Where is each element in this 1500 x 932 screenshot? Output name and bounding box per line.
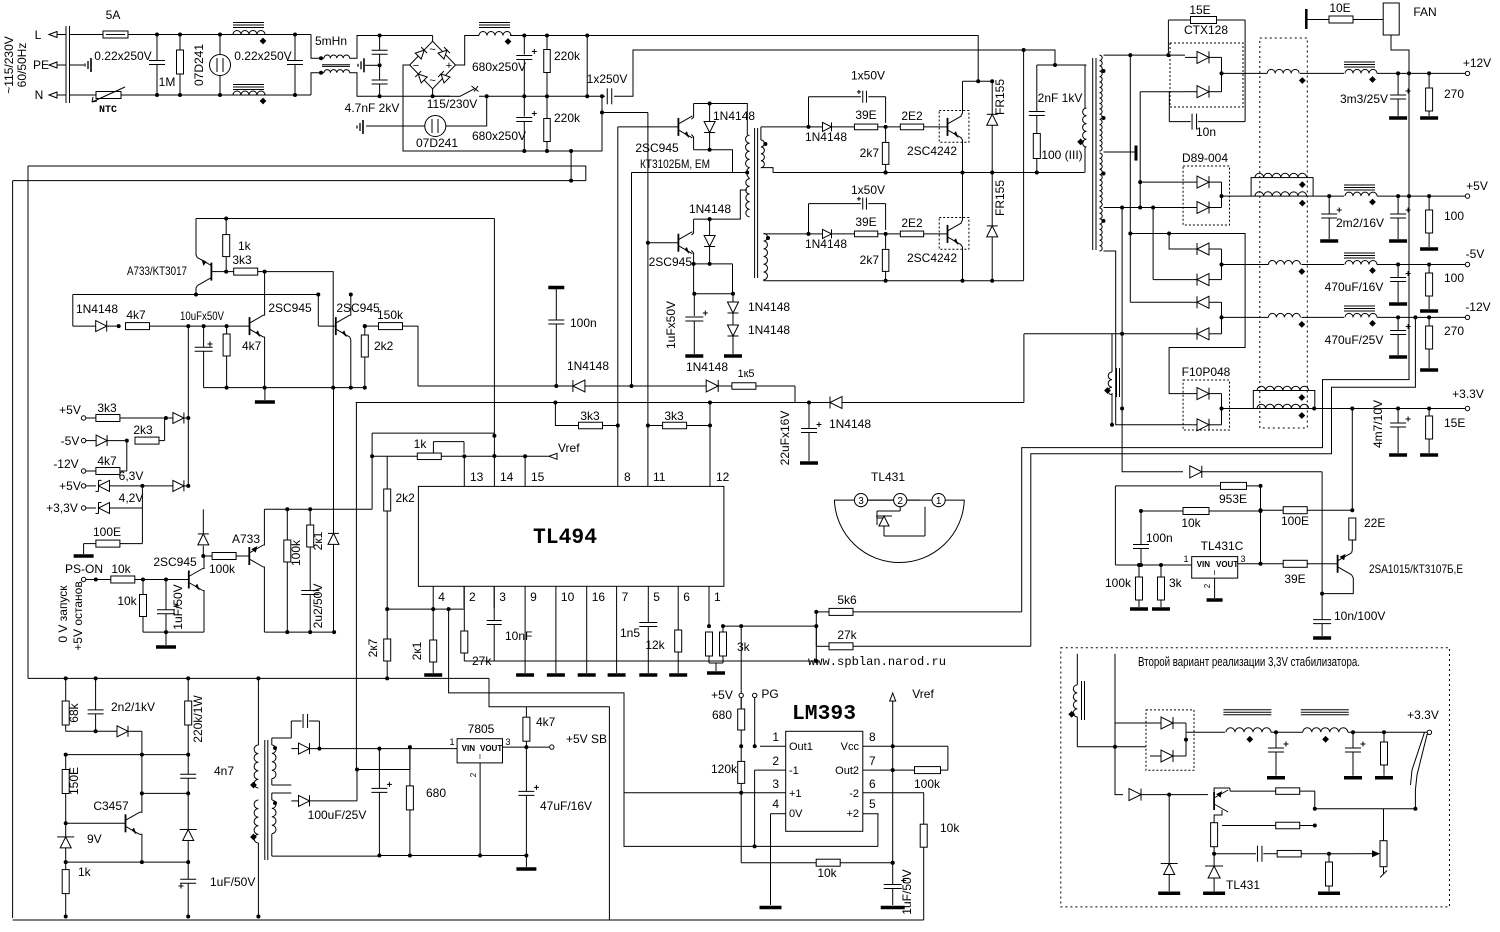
svg-text:15E: 15E (1444, 416, 1465, 430)
svg-text:1x50V: 1x50V (851, 69, 885, 83)
resistor 3k3q5 (224, 268, 264, 275)
resistor 100k431 (1130, 563, 1148, 609)
resistor 27k (461, 608, 468, 661)
wire lower rail up right (1023, 50, 1025, 281)
svg-text:39E: 39E (855, 215, 876, 229)
TL494 pin 9 bottom (524, 586, 526, 608)
resistor 39E lower (854, 231, 900, 237)
svg-text:4k7: 4k7 (97, 454, 117, 468)
varistor 07D241 (210, 33, 231, 98)
svg-text:680: 680 (426, 786, 446, 800)
wire -5V rail b (1302, 264, 1345, 266)
rectifier D89 D1 (1197, 176, 1222, 188)
resistor 150E (62, 755, 69, 824)
wire q5 top right (226, 218, 494, 220)
diode D7 (728, 302, 739, 325)
svg-text:10: 10 (561, 590, 575, 604)
transistor Q5 (197, 258, 226, 286)
svg-text:2: 2 (897, 496, 903, 507)
resistor 1M label (159, 75, 176, 89)
note psontext2 (71, 581, 85, 650)
resistor 4k7b (223, 326, 230, 390)
wire aux bottom (1110, 393, 1114, 427)
capacitor 470uF25 label (1325, 333, 1384, 347)
transformer T3 primary (250, 678, 260, 918)
vertical 1260 (1259, 484, 1263, 564)
wire sense long (356, 402, 809, 404)
svg-text:F10P048: F10P048 (1182, 365, 1231, 379)
wire Q3 collector (691, 104, 693, 120)
winding aux (1104, 368, 1119, 397)
resistor 270m12 label (1444, 324, 1464, 338)
svg-text:1: 1 (449, 737, 454, 747)
zener 6.3V (96, 480, 145, 491)
resistor 2k7 lower (882, 234, 889, 283)
transformer T1 core (755, 128, 758, 278)
transformer T1 primary top (746, 135, 750, 167)
TL494 pin 3 bottom (493, 586, 495, 608)
diode 1N4148 lower (809, 229, 855, 238)
wire D89 upper input (1140, 181, 1197, 183)
diode FR155 upper label (993, 79, 1007, 115)
gnd pin1 (707, 663, 725, 673)
wire sec bottom (1104, 251, 1193, 425)
capacitor 100uF label (308, 808, 367, 822)
transistor Q8 (189, 569, 203, 591)
capacitor 1uFx50V (685, 294, 708, 356)
wire bridge plus out (456, 36, 480, 66)
terminal L (49, 32, 66, 38)
svg-text:3k3: 3k3 (97, 401, 117, 415)
transistor 2SA1015 (1331, 553, 1352, 575)
transistor 2SC4242 upper label (907, 144, 957, 158)
resistor 100Es label (93, 525, 121, 539)
transistor Q8 label (153, 555, 197, 569)
resistor 15E33 label (1444, 416, 1465, 430)
svg-text:4.7nF 2kV: 4.7nF 2kV (345, 101, 400, 115)
resistor 2k1b (307, 509, 314, 590)
wire Q2 collector (961, 173, 963, 223)
resistor 100-5 label (1444, 209, 1464, 223)
svg-text:5: 5 (653, 590, 660, 604)
svg-text:3k: 3k (1169, 576, 1183, 590)
terminal PE label (33, 58, 49, 72)
capacitor 2m2 label (1336, 216, 1384, 230)
diode -12V a (1192, 296, 1221, 308)
alt33 junction (1113, 745, 1117, 749)
wire pin2 path (754, 770, 756, 846)
diode FR155 lower label (993, 180, 1007, 216)
capacitor 1uFps label (171, 584, 185, 629)
resistor 1k5 label (737, 368, 754, 380)
junction 3.3 22E (1350, 407, 1354, 411)
svg-text:100uF/25V: 100uF/25V (308, 808, 367, 822)
wire PE to earth (70, 64, 85, 66)
diode fb 1N4148 label (829, 417, 871, 431)
diode sb1 (66, 726, 142, 737)
junction 3k3 out (263, 270, 267, 274)
svg-text:1: 1 (936, 496, 942, 507)
svg-text:2nF 1kV: 2nF 1kV (1038, 91, 1083, 105)
TL494 pin 7 bottom (616, 586, 618, 608)
svg-text:~: ~ (429, 44, 435, 56)
choke L2 core (479, 23, 510, 28)
capacitor 3m3 (1389, 73, 1411, 118)
input -5V label (61, 434, 80, 448)
capacitor 10uF label (180, 309, 224, 323)
bridge ac mark top (429, 44, 435, 56)
resistor 1k494 label (414, 437, 428, 451)
wire +3.3 rail b (1315, 408, 1466, 410)
wire node diodes (694, 293, 733, 295)
gnd pin x616.6 (608, 608, 626, 675)
svg-text:3m3/25V: 3m3/25V (1340, 92, 1388, 106)
svg-text:10n/100V: 10n/100V (1334, 609, 1385, 623)
wire Q4 collector rail (694, 190, 747, 219)
resistor 10E label (1329, 1, 1350, 15)
alt33 zener1 (1158, 795, 1180, 894)
svg-text:2SC4242: 2SC4242 (907, 144, 957, 158)
junction fb 3.3 (1120, 407, 1124, 411)
alt33 choke1 (1223, 710, 1271, 743)
bridge diode D3 (415, 71, 427, 83)
svg-text:3: 3 (772, 777, 779, 791)
svg-text:2: 2 (469, 772, 478, 777)
diode tl431c feed (1190, 466, 1322, 478)
svg-text:39E: 39E (1284, 572, 1305, 586)
resistor 3k3p11 label (664, 409, 684, 423)
svg-text:2k7: 2k7 (860, 253, 880, 267)
svg-text:1: 1 (1183, 554, 1188, 564)
resistor 1k494 (372, 453, 441, 460)
capacitor 10n100V (1313, 594, 1331, 638)
tap bar FAN (1305, 9, 1308, 29)
svg-text:-5V: -5V (61, 434, 80, 448)
svg-text:953E: 953E (1219, 492, 1247, 506)
wire pin1 right (723, 625, 816, 627)
junction Q5 collector (194, 293, 198, 297)
svg-text:680x250V: 680x250V (472, 60, 526, 74)
wire choke2 bottom out (350, 73, 450, 97)
diode D5 (704, 102, 715, 152)
resistor 1kq5 label (238, 239, 252, 253)
varistor 07D241 label (192, 44, 206, 86)
svg-text:PE: PE (33, 58, 49, 72)
alt33 rail1 (1271, 731, 1303, 733)
resistor 680sb label (426, 786, 446, 800)
alt33 TL431 label (1226, 878, 1260, 892)
input +5V a (81, 416, 95, 420)
resistor 10kd (741, 793, 895, 866)
resistor 2k7 upper (882, 127, 889, 175)
diode q8 (198, 509, 209, 556)
resistor 1k5 (732, 383, 795, 390)
resistor 22E label (1364, 516, 1385, 530)
svg-text:+2: +2 (846, 808, 859, 820)
capacitor snub sb (291, 714, 319, 749)
wire N into choke2 (311, 73, 324, 95)
resistor 10kc label (940, 821, 960, 835)
terminal +3.3V label (1452, 387, 1484, 401)
wire Q5 emitter (196, 219, 197, 258)
alt33 diode ctrl (1129, 789, 1171, 801)
choke +12V section (1267, 69, 1305, 83)
wire pin8 up (617, 127, 619, 487)
wire Q3 emitter rail (694, 150, 733, 173)
wire sb fb2 (142, 754, 188, 756)
svg-text:2: 2 (469, 590, 476, 604)
svg-text:0V: 0V (789, 808, 803, 820)
svg-text:-5V: -5V (1466, 247, 1485, 261)
svg-text:100 (III): 100 (III) (1041, 148, 1082, 162)
wire d3 input (1130, 301, 1192, 303)
transistor Q10 label (93, 799, 129, 813)
wire tap y208 (1104, 207, 1198, 209)
diode -5V b (1192, 274, 1221, 286)
wire 2SA1015 collector (1322, 575, 1353, 594)
wire sb bottom link (66, 861, 189, 863)
resistor 2E2 lower label (901, 216, 923, 230)
earth varistor (357, 120, 363, 134)
rail Q4 emitter (692, 262, 733, 266)
capacitor 4m7 label (1371, 400, 1385, 448)
wire aux top (1111, 334, 1113, 372)
svg-text:4m7/10V: 4m7/10V (1371, 400, 1385, 448)
resistor 100Es (84, 508, 143, 547)
diode dt (418, 380, 706, 392)
wire Q7 emitter (350, 337, 351, 388)
svg-text:470uF/16V: 470uF/16V (1325, 280, 1384, 294)
bridge diode D1 (415, 47, 427, 59)
svg-text:Второй вариант реализации 3,3V: Второй вариант реализации 3,3V стабилиза… (1138, 655, 1360, 669)
svg-text:7: 7 (622, 590, 629, 604)
bridge plus mark (446, 60, 452, 72)
resistor 100E431 (1261, 507, 1355, 514)
TL494 pin 3 label (499, 590, 506, 604)
rectifier CTX128 D2 (1185, 86, 1222, 98)
svg-text:5A: 5A (106, 8, 121, 22)
capacitor CX2 (287, 33, 303, 98)
output choke dashed box (1260, 38, 1308, 428)
svg-text:3: 3 (505, 737, 510, 747)
wire 10n left (1168, 92, 1170, 122)
IC 7805 gnd stem (479, 763, 481, 856)
svg-text:PG: PG (761, 687, 778, 701)
svg-text:1k: 1k (78, 865, 92, 879)
resistor 10k431 label (1181, 516, 1201, 530)
LM393 pin4 (771, 797, 804, 820)
svg-text:+5V останов: +5V останов (71, 581, 85, 650)
diode 1N4148 h label (76, 302, 118, 316)
diode s3 (142, 480, 188, 491)
wire mid to 1x250V (587, 95, 605, 97)
junction lower rail bus (1022, 48, 1026, 52)
resistor 27kb label (837, 628, 857, 642)
rail a733 bottom (264, 630, 336, 634)
IC 7805 pins (449, 737, 510, 777)
diode D8 label (748, 323, 790, 337)
wire +3.3 rail a (1222, 408, 1254, 410)
IC TL494 box (418, 486, 724, 586)
svg-text:1к5: 1к5 (737, 368, 754, 380)
resistor 270-12 label (1444, 87, 1464, 101)
svg-text:2E2: 2E2 (901, 109, 923, 123)
transistor 2SC4242 upper box (939, 111, 969, 143)
resistor 100(III) (1033, 134, 1040, 173)
alt33 choke2 (1301, 710, 1349, 743)
svg-text:2SC945: 2SC945 (336, 301, 380, 315)
resistor R220k-1 (544, 34, 551, 99)
mains connector bars (66, 26, 70, 103)
TL494 pin 6 bottom (677, 586, 679, 608)
svg-text:1uF/50V: 1uF/50V (210, 875, 255, 889)
wire Q1 collector (961, 81, 963, 116)
capacitor CX1 (149, 33, 165, 98)
bridge diode D4 (438, 71, 450, 83)
wire vcc right (893, 745, 948, 747)
alt33 winding (1068, 654, 1084, 747)
alt33 ctrl in (1115, 747, 1123, 795)
capacitor 22uF label (778, 411, 792, 466)
TL494 pin 11 label (653, 470, 666, 484)
svg-text:2: 2 (772, 754, 779, 768)
wire Q6 collector (264, 272, 265, 316)
rectifier F10P048 D1 (1192, 388, 1221, 400)
wire Q7 collector (350, 295, 351, 316)
bus gnd vertical (1022, 73, 1409, 612)
diode 1N4148 lower label (805, 237, 847, 251)
svg-text:FR155: FR155 (993, 180, 1007, 216)
svg-text:3k3: 3k3 (580, 409, 600, 423)
diode 1N4148 upper (809, 122, 855, 131)
TL494 pin 2 label (469, 590, 476, 604)
svg-text:2n2/1kV: 2n2/1kV (111, 700, 155, 714)
capacitor 1x250V (607, 88, 612, 104)
svg-text:1: 1 (772, 730, 779, 744)
gnd 100E (74, 544, 94, 556)
svg-text:2: 2 (1203, 583, 1212, 588)
varistor 07D241 second label (416, 136, 458, 150)
regulator TL431C pins (1183, 554, 1245, 588)
choke CM1 bottom winding (233, 91, 266, 104)
vertical x587 (585, 36, 589, 99)
bar -12V (1220, 302, 1224, 334)
TL494 pin 7 label (622, 590, 629, 604)
junction bridge top (431, 94, 435, 98)
terminal +3.3V (1465, 406, 1469, 410)
svg-text:1N4148: 1N4148 (76, 302, 118, 316)
choke -5V section (1268, 261, 1305, 275)
TL494 pin 5 label (653, 590, 660, 604)
resistor 2E2 lower (900, 231, 941, 237)
svg-text:I: I (1214, 570, 1216, 577)
resistor 4k7s (96, 441, 127, 475)
wire 3.3 to 22E (1351, 409, 1353, 511)
svg-text:14: 14 (500, 470, 514, 484)
svg-text:3k3: 3k3 (232, 253, 252, 267)
capacitor 47uF (518, 747, 539, 855)
diode sb out2 (291, 795, 357, 806)
resistor 12k (669, 608, 687, 675)
IC TL431 internals (868, 500, 925, 536)
junction vref cap (891, 746, 895, 884)
resistor 100kc label (289, 539, 303, 566)
svg-text:FAN: FAN (1413, 5, 1436, 19)
wire Q4 emitter (691, 250, 693, 264)
resistor 2k7 upper label (860, 146, 880, 160)
TL494 pin 1 bottom (708, 586, 710, 608)
svg-text:C3457: C3457 (93, 799, 129, 813)
transistor Q9 (249, 545, 263, 567)
resistor 39E upper label (855, 108, 876, 122)
resistor R220k-2 label (554, 111, 581, 125)
transformer T1 primary bottom (746, 179, 750, 217)
wire 7805 out (503, 746, 550, 748)
svg-text:16: 16 (592, 590, 606, 604)
transformer T2 primary (1077, 108, 1086, 147)
capacitor C6 label (472, 129, 526, 143)
net PS-ON (81, 577, 110, 581)
svg-text:3: 3 (858, 496, 864, 507)
alt33 out (1186, 731, 1225, 733)
capacitor 100n494 (548, 288, 564, 389)
svg-text:0.22x250V: 0.22x250V (234, 49, 291, 63)
resistor 27kb (814, 612, 1031, 650)
rectifier CTX128 D1 (1185, 51, 1222, 63)
svg-text:22E: 22E (1364, 516, 1385, 530)
wire -5V rail c (1377, 264, 1466, 266)
site url (808, 655, 946, 669)
svg-text:3k3: 3k3 (664, 409, 684, 423)
choke CM1 core top (233, 23, 264, 28)
wire mid to varistor2 (446, 96, 487, 126)
transistor Q3 label2 (640, 157, 710, 171)
svg-text:4: 4 (772, 797, 779, 811)
junction sb bl (140, 860, 190, 864)
rectifier F10P048 label (1182, 365, 1231, 379)
resistor 39E upper (854, 124, 900, 130)
net PS-ON label (65, 562, 103, 576)
capacitor CX1 label (94, 49, 151, 63)
resistor 10ka label (111, 562, 131, 576)
resistor 4k7a (126, 323, 250, 330)
resistor 680sb (406, 745, 413, 855)
transistor Q10 (64, 812, 140, 834)
resistor 4k7sb label (536, 715, 556, 729)
capacitor 100n494 bar (548, 286, 564, 290)
capacitor C5 (516, 34, 537, 99)
label mains freq (15, 43, 29, 88)
regulator TL431C box (1192, 557, 1238, 579)
diode a733 (328, 388, 339, 632)
resistor 270m12 (1420, 317, 1438, 370)
gnd pin x555.9 (547, 608, 565, 675)
svg-text:Out1: Out1 (789, 741, 813, 753)
rectifier CTX128 box (1170, 43, 1243, 107)
svg-text:4k7: 4k7 (126, 308, 146, 322)
capacitor 1x250V label (587, 72, 628, 86)
svg-text:11: 11 (653, 470, 666, 484)
resistor 1ksb label (78, 865, 92, 879)
alt33 junction3 (1413, 807, 1417, 811)
resistor 2k3 label (133, 423, 153, 437)
svg-text:115/230V: 115/230V (427, 97, 478, 111)
resistor 10ka (111, 576, 189, 583)
alt33 title (1138, 655, 1360, 669)
diode dt label (567, 359, 609, 373)
wire sense 27k (1031, 317, 1416, 646)
terminal PE (49, 62, 66, 68)
